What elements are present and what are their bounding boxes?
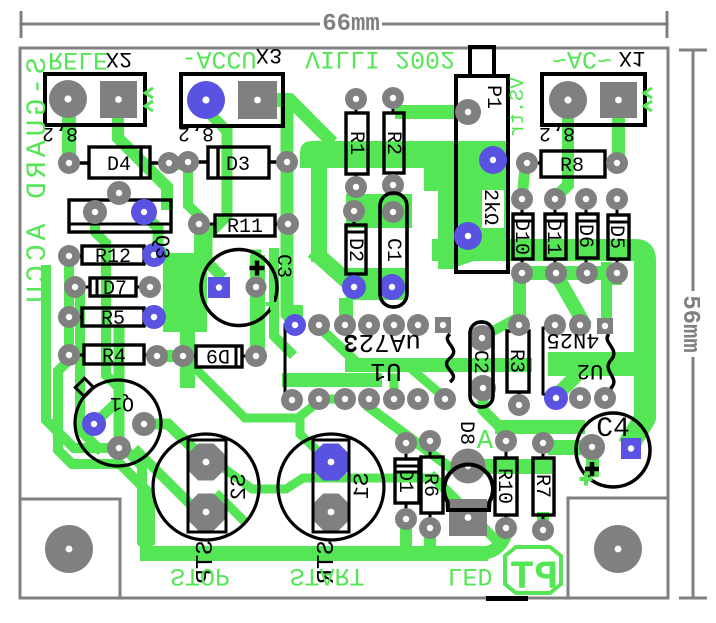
wire C4 pad stub xyxy=(586,452,599,477)
switch S1 rect overlay xyxy=(313,440,349,532)
pad R4 2 xyxy=(146,345,168,367)
pad D9 junction xyxy=(172,345,194,367)
svg-text:R7: R7 xyxy=(530,474,553,498)
diode D8 outline xyxy=(444,465,493,510)
svg-text:VS.tr: VS.tr xyxy=(507,77,530,137)
wire U1 to pin14 xyxy=(415,372,445,398)
pad U1 bottom 4 xyxy=(358,388,380,410)
resistor R12 body xyxy=(82,246,144,264)
wire S2 mid diagonal xyxy=(210,458,430,489)
resistor R4 body xyxy=(84,345,144,364)
mounting square left xyxy=(20,499,120,598)
pad U1 bottom 3 xyxy=(334,388,356,410)
pad R7 1 xyxy=(532,432,554,454)
pad U1 top 4 xyxy=(358,314,380,336)
wire S1 to band diag xyxy=(434,478,498,542)
wire R8 left down xyxy=(522,168,525,199)
pad U2 top 1 xyxy=(544,314,566,336)
pad C1 2 xyxy=(379,274,405,300)
transistor Q3 body xyxy=(69,200,171,232)
pad R3 1 xyxy=(508,314,530,336)
svg-text:4N25: 4N25 xyxy=(547,327,600,352)
diode D7 body xyxy=(90,278,136,296)
copper pour left of C3 xyxy=(163,253,207,332)
pad P1 2 xyxy=(479,146,507,174)
wire pour column C3 right A xyxy=(250,255,265,356)
svg-text:R2: R2 xyxy=(381,131,404,155)
svg-text:R3: R3 xyxy=(504,349,527,373)
pad R12 1 xyxy=(58,245,80,267)
pad U1 top 3 xyxy=(334,314,356,336)
svg-text:P1: P1 xyxy=(481,85,504,109)
svg-text:C4: C4 xyxy=(596,414,630,445)
diode D3 xyxy=(208,147,269,178)
svg-text:D2: D2 xyxy=(343,238,366,262)
pad X3 pin1 xyxy=(187,81,225,119)
green arrow X1 b xyxy=(644,101,652,111)
wire C3 left down xyxy=(180,330,195,388)
wire R6 bottom stub xyxy=(424,528,436,552)
pad C4 1 xyxy=(579,434,605,460)
pad U2 pin square xyxy=(597,318,613,334)
pad Q3 b xyxy=(83,200,107,224)
wire Q1 right exit xyxy=(144,424,206,461)
wire U1 row H1 xyxy=(345,358,532,372)
mounting hole right xyxy=(594,525,642,573)
pad R2 2 xyxy=(382,174,404,196)
wire bottom band xyxy=(140,546,488,561)
logo PT octagon xyxy=(505,547,561,593)
capacitor C4 plus xyxy=(585,462,599,476)
pad D10 2 xyxy=(511,262,533,284)
svg-text:R4: R4 xyxy=(102,346,126,369)
diode D1 body xyxy=(395,459,419,503)
svg-text:S2: S2 xyxy=(227,474,252,500)
svg-text:X3: X3 xyxy=(256,42,282,67)
resistor R8 body xyxy=(541,151,605,177)
svg-text:Q1: Q1 xyxy=(110,391,134,414)
svg-text:S-GUARD ACCU: S-GUARD ACCU xyxy=(23,57,54,307)
wire U1 row H2 xyxy=(282,373,382,387)
pad D3 1 xyxy=(177,151,199,173)
switch S2 rect overlay xyxy=(188,440,226,532)
board outline xyxy=(20,48,668,598)
resistor R2 body xyxy=(384,113,404,173)
pad R3 2 xyxy=(508,394,530,416)
svg-text:U2: U2 xyxy=(577,358,603,383)
svg-text:PT: PT xyxy=(510,556,558,601)
diode D5 body xyxy=(608,215,629,259)
wire diag to S2 lower xyxy=(138,452,197,511)
svg-text:D3: D3 xyxy=(226,154,250,177)
wire pour to U1 pin A xyxy=(289,305,303,325)
wire U1 to D8 diag xyxy=(370,408,448,466)
wire C4 to R7 band xyxy=(548,440,592,455)
pad U1 bottom 5 xyxy=(383,388,405,410)
pad U2 bottom 3 xyxy=(594,387,616,409)
dimension line 56mm xyxy=(679,50,707,598)
pad Q3 c xyxy=(131,199,157,225)
wire pour column A diag xyxy=(319,256,348,282)
copper pour P1 interior xyxy=(456,141,506,267)
pad U1 bottom 1 xyxy=(281,389,303,411)
svg-text:D4: D4 xyxy=(107,154,131,177)
capacitor C1 body xyxy=(380,193,407,307)
copper pour top band xyxy=(300,141,456,168)
capacitor C3 outline xyxy=(201,250,277,326)
pad D2 1 xyxy=(343,200,365,222)
pad U1 pin14 square xyxy=(435,317,451,333)
pad U1 top 6 xyxy=(407,314,429,336)
svg-text:X1: X1 xyxy=(619,45,645,70)
svg-text:C1: C1 xyxy=(381,238,404,262)
green arrow X2 a xyxy=(145,88,153,98)
pad D8 anode xyxy=(451,449,486,484)
pad C2 2 xyxy=(470,375,496,401)
diode D9 body xyxy=(196,346,242,367)
svg-text:STOP: STOP xyxy=(170,561,230,590)
wire R7 bottom stub xyxy=(537,512,549,528)
pad R6 2 xyxy=(419,517,441,539)
wire C2 bottom diag xyxy=(483,392,497,424)
wire R2 to P1 xyxy=(395,105,470,119)
svg-text:~AC~: ~AC~ xyxy=(552,44,612,73)
resistor R1 body xyxy=(346,113,368,174)
svg-text:D6: D6 xyxy=(573,224,596,248)
pad Q1 c xyxy=(132,412,156,436)
wire R4 to junction xyxy=(157,350,183,362)
wire U1 pin diag xyxy=(319,327,356,362)
capacitor C2 body xyxy=(470,322,493,407)
pad R4 1 xyxy=(58,344,80,366)
green arrow X1 a xyxy=(644,88,652,98)
wire diode row bottom band xyxy=(516,266,620,280)
pad D11 1 xyxy=(544,188,566,210)
svg-text:C3: C3 xyxy=(271,254,294,278)
switch S2 outline xyxy=(153,434,259,540)
svg-text:START: START xyxy=(289,561,364,590)
pad D8 cathode xyxy=(449,499,487,536)
svg-text:D5: D5 xyxy=(604,225,627,249)
svg-text:D8: D8 xyxy=(454,421,477,445)
wire U2 band diag xyxy=(556,380,572,396)
svg-text:R11: R11 xyxy=(227,216,263,239)
pad D6 2 xyxy=(576,262,598,284)
svg-text:C2: C2 xyxy=(468,350,491,374)
wire X1 pin1 down xyxy=(556,100,568,197)
resistor R7 body xyxy=(533,458,554,515)
pad P1 3 xyxy=(454,222,482,250)
wire pour column C3 right B xyxy=(274,253,290,352)
wire pour to U1 pin B xyxy=(339,298,353,325)
diode D11 body xyxy=(545,214,566,259)
potentiometer P1 xyxy=(456,76,508,272)
jumper wire U1 left xyxy=(285,325,294,399)
resistor R6 body xyxy=(421,457,443,513)
svg-text:66mm: 66mm xyxy=(322,11,380,38)
pad D2 2 xyxy=(342,275,366,299)
pad X2 pin1 xyxy=(49,80,87,118)
pad D3 2 xyxy=(276,151,298,173)
svg-text:uA723: uA723 xyxy=(343,327,421,357)
pad R6 1 xyxy=(419,430,441,452)
wire X3 stub to pour diag xyxy=(292,102,328,138)
wire D9 right up xyxy=(251,255,262,352)
pad D5 2 xyxy=(606,262,628,284)
svg-text:56mm: 56mm xyxy=(676,295,703,353)
svg-text:8,2: 8,2 xyxy=(539,121,575,144)
svg-text:-ACCU: -ACCU xyxy=(181,44,256,73)
wire X2 pin1 to D4 xyxy=(62,99,76,165)
svg-text:LED: LED xyxy=(447,561,492,590)
wire D9 diagonal long xyxy=(185,358,343,418)
green arrow X2 b xyxy=(145,101,153,111)
pad U1 bottom 2 xyxy=(308,388,330,410)
pad C3 minus xyxy=(208,277,230,298)
wire X3 pin2 stub xyxy=(256,93,290,107)
svg-text:D11: D11 xyxy=(541,219,564,255)
pad X2 pin2 xyxy=(100,81,137,118)
pad U1 top 5 xyxy=(383,314,405,336)
wire Q1 blue diag xyxy=(97,400,119,421)
wire C2 to C4 band xyxy=(495,420,585,434)
pad C1 1 xyxy=(382,201,404,223)
wire D3 to R11 xyxy=(188,168,199,250)
svg-text:R12: R12 xyxy=(95,246,131,269)
wire left bundle B xyxy=(58,260,150,540)
wire R10 bottom curve xyxy=(484,534,506,553)
pad U2 bottom 1 xyxy=(544,386,568,410)
wire C2 to R3 diag xyxy=(484,319,515,336)
plus green C3 xyxy=(266,298,279,311)
wire D8 to R7 band xyxy=(468,459,552,474)
pad D1 2 xyxy=(395,508,417,530)
wire diag D5 bottom xyxy=(612,273,622,280)
pad R5 2 xyxy=(142,305,166,329)
wire U2 band xyxy=(548,352,645,376)
pad U1 top 2 xyxy=(308,314,330,336)
connector X3 xyxy=(181,74,283,126)
svg-text:RELE: RELE xyxy=(48,45,108,74)
svg-text:D7: D7 xyxy=(103,278,127,301)
pad D4 2 xyxy=(158,152,180,174)
pad S1 2 xyxy=(313,494,350,531)
svg-text:S1: S1 xyxy=(350,473,375,499)
diode D4 xyxy=(89,147,150,178)
pad U2 top 2 xyxy=(569,314,591,336)
pad D10 1 xyxy=(511,188,533,210)
wire X3-D3-R11-U1 column xyxy=(287,100,294,322)
pad Q1 b xyxy=(82,412,106,436)
switch S1 outline xyxy=(278,434,384,540)
pad S2 1 xyxy=(188,444,225,481)
pour white slot P1 2k xyxy=(482,190,504,228)
svg-text:R5: R5 xyxy=(101,308,125,331)
wire pour block mid xyxy=(346,194,412,228)
svg-text:D1: D1 xyxy=(393,469,416,493)
transistor Q1 outline xyxy=(75,380,161,466)
wire left bundle C xyxy=(80,292,98,448)
pad U1 bottom 7 xyxy=(434,388,456,410)
U1 notch brace xyxy=(447,334,454,382)
mounting square right xyxy=(568,498,668,598)
pad R7 2 xyxy=(532,519,554,541)
wire X2 pin2 diagonal xyxy=(118,99,167,204)
pad R11 1 xyxy=(188,213,210,235)
svg-text:8,2: 8,2 xyxy=(178,121,214,144)
resistor R10 body xyxy=(495,458,517,515)
pad R12 2 xyxy=(142,243,166,267)
pad D1 1 xyxy=(395,432,417,454)
svg-text:R8: R8 xyxy=(560,155,584,178)
pad X1 pin1 xyxy=(549,81,587,119)
border black mark xyxy=(486,596,528,601)
diode D2 body xyxy=(346,225,366,274)
pad C3 plus xyxy=(246,277,267,298)
pad D11 2 xyxy=(545,262,567,284)
wire relay pad to pour xyxy=(144,214,172,272)
pad R10 1 xyxy=(495,430,517,452)
svg-text:Q3: Q3 xyxy=(149,235,172,259)
pad R1 2 xyxy=(345,176,367,198)
pad D7 2 xyxy=(139,276,161,298)
wire U2 pin1 feed xyxy=(601,262,612,322)
wire X3 pin1 to C3 xyxy=(206,100,227,274)
svg-text:D10: D10 xyxy=(509,219,532,255)
wire Q1 column xyxy=(114,332,125,442)
connector X2 xyxy=(45,74,145,125)
resistor R11 body xyxy=(215,215,275,236)
wire left bundle A xyxy=(46,270,200,552)
wire U1 pad stub xyxy=(390,378,399,399)
svg-text:A: A xyxy=(477,427,494,457)
wire pour column A xyxy=(311,160,327,262)
pad R8 1 xyxy=(516,152,538,174)
wire pour right strip 2 xyxy=(438,191,456,269)
pad Q1 e xyxy=(107,436,131,460)
capacitor C2 outline overlay xyxy=(470,322,493,407)
pad C4 2 xyxy=(621,438,641,459)
pad S1 1 xyxy=(313,444,350,481)
wire pour block low xyxy=(346,268,408,300)
diode D10 body xyxy=(513,214,533,259)
svg-text:U1: U1 xyxy=(370,356,401,386)
pad D9 2 xyxy=(245,345,267,367)
diode D6 body xyxy=(577,214,598,258)
capacitor C4 outline xyxy=(576,413,650,487)
jumper wire U2 left xyxy=(543,325,554,398)
pad R10 2 xyxy=(495,517,517,539)
wire X1 pin2 down xyxy=(612,100,625,163)
wire S2 bottom exit xyxy=(219,496,242,519)
wire wide band top xyxy=(432,250,645,446)
U2 notch brace xyxy=(607,334,614,395)
svg-text:2kΩ: 2kΩ xyxy=(478,189,501,225)
pad X3 pin2 xyxy=(238,81,277,119)
svg-text:R10: R10 xyxy=(492,468,515,504)
wire to S1 blue xyxy=(300,420,326,459)
pad D7 1 xyxy=(64,276,86,298)
connector X1 xyxy=(542,74,645,125)
dimension line 66mm xyxy=(21,11,667,38)
svg-text:R6: R6 xyxy=(418,473,441,497)
pad R11 2 xyxy=(277,213,299,235)
resistor R3 body xyxy=(507,331,529,392)
pad U2 bottom 2 xyxy=(569,387,591,409)
pad R8 2 xyxy=(606,152,628,174)
capacitor C3 plus xyxy=(250,261,265,276)
wire D1 bottom stub xyxy=(400,519,412,553)
pad X1 pin2 xyxy=(600,82,637,118)
pad R5 1 xyxy=(58,306,80,328)
wire pour right strip xyxy=(424,141,456,191)
resistor R5 body xyxy=(82,308,144,326)
pad D5 1 xyxy=(606,188,628,210)
pad S2 2 xyxy=(188,494,225,531)
pad C2 1 xyxy=(469,325,495,351)
pad U1 top 1 xyxy=(284,314,306,336)
pad U1 bottom 6 xyxy=(407,388,429,410)
pad D6 1 xyxy=(575,188,597,210)
svg-text:R1: R1 xyxy=(344,131,367,155)
mounting hole left xyxy=(45,525,93,573)
pad R2 1 xyxy=(382,87,404,109)
wire relay to Q1 xyxy=(95,218,116,385)
wire R11 left stub xyxy=(194,224,204,248)
pad Q3 a xyxy=(107,181,131,205)
wire D4 to D3 xyxy=(169,156,190,170)
plus green C4 xyxy=(580,473,593,486)
wire D11 to U2 diag xyxy=(557,276,582,320)
capacitor C1 outline overlay xyxy=(380,193,407,307)
pad D4 1 xyxy=(58,152,80,174)
pad P1 1 xyxy=(455,99,481,125)
diode D8 outline overlay xyxy=(444,465,493,510)
wire R3 top feed xyxy=(513,280,526,325)
pad R1 1 xyxy=(345,88,367,110)
svg-text:D9: D9 xyxy=(206,343,230,366)
svg-text:VILLI 2002: VILLI 2002 xyxy=(305,44,455,73)
svg-text:X2: X2 xyxy=(106,46,132,71)
